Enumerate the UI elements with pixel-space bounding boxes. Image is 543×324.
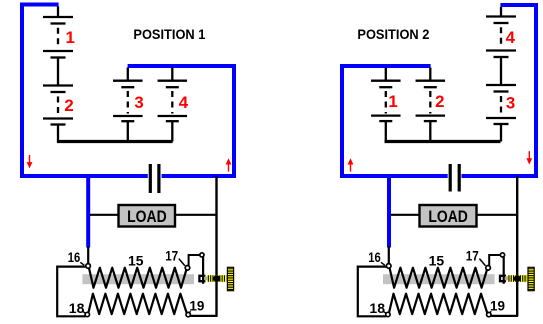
- contact pad (pos 2): [505, 276, 508, 280]
- battery 3 (pos 2): [486, 84, 516, 86]
- battery 4: [158, 80, 188, 82]
- terminal node 16 (pos 1): [86, 264, 91, 269]
- svg-text:18: 18: [69, 300, 85, 316]
- wire: load right lead (pos 1): [176, 214, 216, 216]
- tick from 16 to coil terminal (pos 2): [381, 262, 385, 265]
- svg-text:19: 19: [490, 297, 505, 313]
- svg-text:3: 3: [506, 94, 515, 113]
- ball contact (pos 2): [514, 275, 521, 282]
- svg-text:LOAD: LOAD: [127, 208, 167, 226]
- armature arm (pos 1): [202, 257, 204, 284]
- wire: right rail from blue bus to vibrator (pos 1): [215, 176, 217, 316]
- tick from 18 to coil terminal (pos 1): [83, 311, 86, 313]
- terminal node 18 (pos 2): [386, 312, 390, 316]
- terminal node 17 (pos 1): [185, 266, 190, 271]
- adjusting screw (pos 1): [227, 267, 233, 290]
- battery 1 bottom stub (pos 2): [385, 122, 387, 142]
- pivot node (pos 2): [500, 253, 504, 257]
- svg-text:4: 4: [179, 93, 189, 112]
- terminal node 19 (pos 2): [487, 312, 491, 316]
- load box (pos 1): [119, 205, 176, 227]
- current arrow down (pos 2 right): [528, 151, 530, 161]
- contact pad (pos 1): [204, 276, 207, 280]
- current arrow up (pos 2 left): [350, 161, 352, 171]
- svg-text:POSITION 2: POSITION 2: [357, 26, 429, 42]
- battery 2 (pos 2): [416, 80, 446, 82]
- svg-text:15: 15: [128, 253, 144, 269]
- svg-text:POSITION 1: POSITION 1: [133, 26, 205, 42]
- wire: right rail from blue bus to vibrator (pos 2): [516, 176, 518, 316]
- wire: load right lead (pos 2): [478, 214, 517, 216]
- battery 4 bottom stub: [171, 122, 173, 142]
- battery 3: [113, 80, 143, 82]
- wire: feed stub down to terminal 16 (pos 2): [388, 247, 390, 264]
- wire: between battery 4 and 3 (pos 2): [500, 58, 502, 84]
- wire: load left lead (pos 1): [90, 214, 118, 216]
- svg-text:1: 1: [66, 28, 75, 47]
- wire: blue feed down to vibrator (pos 2): [387, 176, 391, 248]
- wire: left frame loop 16-18 (pos 2): [358, 267, 386, 317]
- contact spring (pos 1): [207, 275, 226, 282]
- wire: blue feed down to vibrator (pos 1): [86, 176, 90, 248]
- coil 15 winding (pos 1): [89, 267, 187, 288]
- wire: black bottom bus of batteries (pos 2): [385, 140, 501, 143]
- tick from 17 to coil terminal (pos 2): [479, 259, 485, 266]
- wire: 17 terminal up to pivot (pos 1): [189, 255, 201, 266]
- wire: 17 terminal up to pivot (pos 2): [489, 255, 501, 266]
- svg-text:16: 16: [68, 249, 81, 265]
- svg-text:19: 19: [189, 297, 204, 313]
- terminal node 17 (pos 2): [486, 266, 491, 271]
- pivot node (pos 1): [200, 253, 204, 257]
- coil 18-19 winding (pos 1): [88, 294, 187, 314]
- battery 3 bottom stub: [127, 122, 129, 142]
- tick from 16 to coil terminal (pos 1): [80, 262, 84, 265]
- tick from 17 to coil terminal (pos 1): [179, 259, 185, 266]
- wire: battery chain top stub (pos 2): [500, 7, 502, 17]
- battery 2 top stub (pos 2): [429, 68, 431, 81]
- battery 4 top stub: [171, 68, 173, 81]
- wire: load left lead (pos 2): [391, 214, 419, 216]
- wire: battery 3 to bottom bus (pos 2): [500, 125, 502, 142]
- coil 18-19 winding (pos 2): [389, 294, 488, 314]
- wire: left frame loop 16-18 (pos 1): [57, 267, 85, 317]
- battery 2: [43, 84, 73, 86]
- coil 15 winding (pos 2): [389, 267, 487, 288]
- capacitor C2 (pos 2): [448, 163, 462, 194]
- ball contact (pos 1): [213, 275, 220, 282]
- tick from 19 to coil terminal (pos 1): [189, 311, 191, 313]
- svg-text:17: 17: [466, 247, 479, 263]
- svg-text:17: 17: [165, 247, 178, 263]
- contact spring (pos 2): [508, 275, 527, 282]
- svg-text:15: 15: [429, 253, 445, 269]
- iron core bar (pos 2): [383, 274, 495, 284]
- battery 1 (pos 2): [371, 80, 401, 82]
- battery 1: [43, 16, 73, 18]
- battery 4 (pos 2): [486, 15, 516, 17]
- terminal node 16 (pos 2): [386, 264, 391, 269]
- current arrow up (pos 1 right): [228, 161, 230, 171]
- adjusting screw (pos 2): [528, 267, 534, 290]
- battery 2 bottom stub (pos 2): [429, 122, 431, 142]
- svg-text:2: 2: [435, 92, 444, 111]
- wire: blue loop position 1: [22, 5, 234, 177]
- terminal node 18 (pos 1): [85, 312, 89, 316]
- wire: battery 2 to bottom bus: [57, 125, 59, 142]
- current arrow down (pos 1 left): [29, 155, 31, 165]
- tick from 19 to coil terminal (pos 2): [489, 311, 491, 313]
- svg-text:2: 2: [64, 96, 73, 115]
- wire: feed stub down to terminal 16 (pos 1): [87, 247, 89, 264]
- wire: blue loop position 2: [342, 5, 536, 176]
- battery 3 top stub: [127, 68, 129, 81]
- svg-text:16: 16: [368, 249, 381, 265]
- load box (pos 2): [420, 205, 477, 227]
- wire: battery chain top stub (pos 1): [57, 7, 59, 18]
- wire: terminal 19 to right rail (pos 1): [190, 315, 217, 317]
- svg-text:4: 4: [506, 28, 516, 47]
- svg-text:LOAD: LOAD: [428, 208, 468, 226]
- contact bracket (pos 2): [500, 276, 506, 281]
- svg-text:3: 3: [134, 93, 143, 112]
- wire: black bottom bus of batteries (pos 1): [57, 140, 173, 143]
- terminal node 19 (pos 1): [186, 312, 190, 316]
- wire: between battery 1 and 2: [57, 59, 59, 85]
- iron core bar (pos 1): [82, 274, 194, 284]
- tick from 18 to coil terminal (pos 2): [383, 311, 386, 313]
- armature arm (pos 2): [503, 257, 505, 284]
- battery 1 top stub (pos 2): [385, 68, 387, 81]
- contact bracket (pos 1): [199, 276, 205, 281]
- svg-text:18: 18: [369, 300, 385, 316]
- svg-text:1: 1: [388, 92, 397, 111]
- capacitor C1 (pos 1): [148, 163, 162, 194]
- wire: terminal 19 to right rail (pos 2): [491, 315, 518, 317]
